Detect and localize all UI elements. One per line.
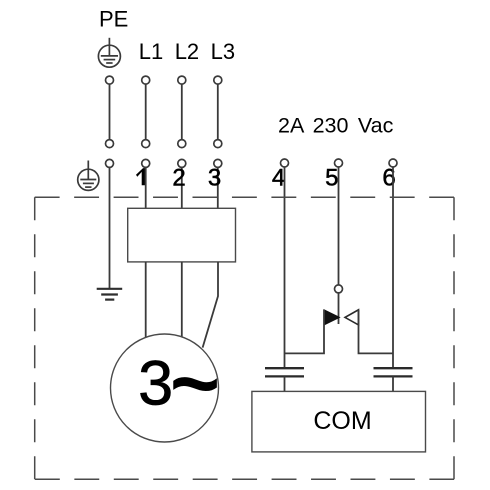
terminal circle 3 [214,159,222,167]
svg-text:4: 4 [272,164,285,191]
wire L2 upper [181,84,183,140]
COM box [252,391,426,452]
wire block to motor V [181,262,183,337]
terminal circle 5 [335,159,343,167]
terminal circle L1 top [142,76,150,84]
terminal circle 1 [142,159,150,167]
thermal contact TK: filled triangle [324,310,340,325]
svg-text:COM: COM [313,407,371,435]
svg-text:PE: PE [99,7,128,32]
svg-text:L3: L3 [211,39,235,64]
pin label 1 [136,168,145,185]
terminal circle PE top [106,76,114,84]
wire terminal 3 to block [217,167,219,208]
terminal circle PE mid [106,140,114,148]
motor M1 circle [111,334,219,442]
thermal contact TK: open triangle [345,310,359,325]
wire L1 upper [145,84,147,140]
terminal circle PE lower [106,159,114,167]
terminal circle L2 mid [178,140,186,148]
terminal circle L3 top [214,76,222,84]
terminal circle 6 [389,159,397,167]
terminal block box [128,208,236,262]
terminal circle L1 mid [142,140,150,148]
svg-text:3: 3 [208,164,221,191]
thermal contact left lead [285,310,325,354]
terminal circle 2 [178,159,186,167]
wire capacitor left to COM [284,376,286,391]
wire terminal 6 down [392,167,394,368]
wire capacitor right to COM [392,376,394,391]
capacitor C-left plates [265,368,304,376]
terminal circle L2 top [178,76,186,84]
ground symbol (PE termination) [97,289,123,300]
capacitor C-right plates [374,368,413,376]
wire block to motor U [145,262,147,338]
svg-text:3: 3 [138,349,173,419]
wire terminal 5 down [338,167,340,285]
wire block to motor W (angled) [203,262,218,348]
wire terminal 1 to block [145,167,147,208]
svg-text:5: 5 [325,164,338,191]
svg-text:~: ~ [170,336,220,432]
wire PE upper [109,84,111,140]
wire PE to ground [109,167,111,288]
node circle on wire 5 [335,285,343,293]
terminal circle 4 [281,159,289,167]
svg-text:L1: L1 [139,39,163,64]
svg-text:L2: L2 [175,39,199,64]
wire terminal 4 down [284,167,286,368]
svg-text:2A 230 Vac: 2A 230 Vac [278,113,394,137]
wire L3 upper [217,84,219,140]
chassis earth symbol (circled, left) [78,161,99,191]
wire node to thermal contact [338,293,340,324]
terminal circle L3 mid [214,140,222,148]
svg-text:2: 2 [172,164,185,191]
PE earth symbol (circled) [98,38,120,67]
wire terminal 2 to block [181,167,183,208]
thermal contact right lead [359,310,394,354]
dashed enclosure border [35,197,454,479]
